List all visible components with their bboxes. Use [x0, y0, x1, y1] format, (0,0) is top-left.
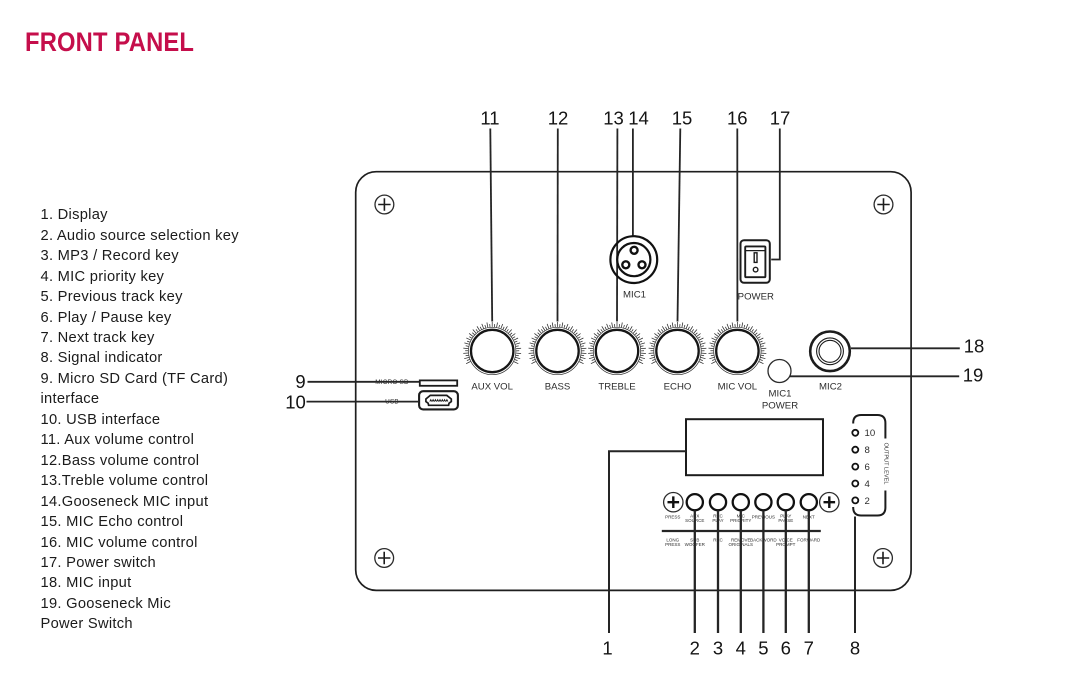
svg-text:13: 13 [603, 108, 624, 129]
svg-text:REC: REC [713, 537, 723, 542]
knob AUX VOL [463, 322, 521, 375]
svg-text:1: 1 [602, 638, 612, 659]
svg-text:SOURCE: SOURCE [685, 518, 704, 523]
svg-text:PLAY: PLAY [712, 518, 723, 523]
button PREVIOUS [755, 494, 771, 510]
svg-text:17: 17 [770, 108, 791, 129]
MIC1 XLR connector [610, 236, 657, 283]
svg-text:7: 7 [804, 638, 814, 659]
svg-text:6: 6 [865, 462, 870, 473]
leader line 5 from button PREVIOUS [762, 510, 764, 633]
svg-text:BACKWORD: BACKWORD [750, 537, 777, 542]
button MIC PRIORITY [733, 494, 749, 510]
svg-text:3: 3 [713, 638, 723, 659]
svg-text:WOOFER: WOOFER [685, 542, 706, 547]
leader line 13 to TREBLE knob [616, 129, 618, 322]
screw left of button row (PRESS) [664, 493, 683, 512]
panel outline [356, 172, 911, 591]
svg-text:11: 11 [480, 108, 499, 129]
divider line between press and long-press labels [662, 530, 821, 532]
leader line 8 from output level [854, 517, 856, 634]
svg-text:18: 18 [964, 336, 985, 357]
leader line 16 to MIC VOL knob [736, 129, 738, 322]
knob BASS [529, 322, 587, 375]
svg-text:BASS: BASS [545, 382, 571, 393]
svg-text:5: 5 [758, 638, 768, 659]
legend list [41, 205, 239, 635]
svg-text:FORWARD: FORWARD [797, 537, 821, 542]
svg-text:OUTPUT LEVEL: OUTPUT LEVEL [883, 443, 889, 485]
button NEXT [801, 494, 817, 510]
svg-text:TREBLE: TREBLE [598, 382, 635, 393]
svg-text:6: 6 [781, 638, 791, 659]
corner screw [375, 195, 394, 214]
leader line 2 from button AUX SOURCE [694, 510, 696, 633]
svg-text:2: 2 [690, 638, 700, 659]
svg-text:14: 14 [628, 108, 649, 129]
svg-text:10: 10 [865, 428, 876, 439]
output level LED 10 [852, 430, 858, 436]
svg-text:PRIORITY: PRIORITY [730, 518, 751, 523]
button AUX SOURCE [687, 494, 703, 510]
svg-text:12: 12 [548, 108, 569, 129]
svg-text:MIC1: MIC1 [623, 290, 646, 301]
svg-text:POWER: POWER [762, 401, 798, 412]
svg-text:AUX VOL: AUX VOL [471, 382, 513, 393]
svg-text:MIC2: MIC2 [819, 382, 842, 393]
output level LED 4 [852, 481, 858, 487]
svg-text:10: 10 [285, 392, 306, 413]
leader line 15 to ECHO knob [678, 129, 681, 322]
leader line 17 to power switch [771, 129, 780, 260]
svg-text:19: 19 [963, 365, 984, 386]
svg-text:POWER: POWER [738, 292, 774, 303]
svg-text:4: 4 [865, 479, 871, 490]
leader line 1 from display [609, 451, 686, 633]
leader line 18 from MIC2 [851, 347, 960, 349]
output level LED 6 [852, 464, 858, 470]
svg-text:MIC1: MIC1 [769, 389, 792, 400]
svg-text:MICRO SD: MICRO SD [375, 379, 409, 386]
svg-text:ECHO: ECHO [664, 382, 692, 393]
leader line 12 to BASS knob [557, 129, 559, 322]
button PLAY PAUSE [778, 494, 794, 510]
USB plug profile [426, 395, 451, 405]
leader line 4 from button MIC PRIORITY [740, 510, 742, 633]
MIC1 POWER switch circle [768, 360, 791, 383]
output level bracket [853, 415, 885, 516]
leader line 3 from button REC PLAY [717, 510, 719, 633]
USB teeth [430, 400, 448, 402]
knob ECHO [649, 322, 707, 375]
svg-text:16: 16 [727, 108, 748, 129]
MIC2 jack [810, 332, 850, 372]
knob MIC VOL [709, 322, 767, 375]
leader line 6 from button PLAY PAUSE [785, 510, 787, 633]
button REC PLAY [710, 494, 726, 510]
svg-text:2: 2 [865, 496, 870, 507]
corner screw [375, 549, 394, 568]
display [686, 419, 823, 475]
svg-text:9: 9 [295, 371, 305, 392]
leader line 9 to SD slot [308, 381, 420, 383]
svg-text:4: 4 [736, 638, 746, 659]
USB connector [419, 391, 458, 409]
svg-text:PROMPT: PROMPT [776, 542, 796, 547]
corner screw [874, 195, 893, 214]
svg-text:NEXT: NEXT [803, 515, 815, 520]
knob TREBLE [588, 322, 646, 375]
output level LED 8 [852, 447, 858, 453]
svg-text:PREVIOUS: PREVIOUS [752, 515, 775, 520]
leader line 10 to USB [307, 401, 420, 403]
svg-text:USB: USB [385, 399, 399, 406]
screw right of button row [820, 493, 839, 512]
svg-text:PRESS: PRESS [665, 515, 680, 520]
svg-text:15: 15 [672, 108, 693, 129]
svg-text:8: 8 [850, 638, 860, 659]
corner screw [874, 549, 893, 568]
svg-text:ORIGINALS: ORIGINALS [729, 542, 754, 547]
micro SD card slot [420, 380, 457, 385]
power switch [741, 240, 770, 283]
svg-text:8: 8 [865, 445, 870, 456]
svg-text:PAUSE: PAUSE [778, 518, 793, 523]
svg-text:PRESS: PRESS [665, 542, 680, 547]
leader line 19 from MIC1 POWER [790, 375, 959, 377]
svg-text:MIC VOL: MIC VOL [718, 382, 758, 393]
leader line 14 to MIC1 connector [632, 129, 634, 237]
leader line 11 to AUX VOL knob [490, 129, 492, 322]
leader line 7 from button NEXT [808, 510, 810, 633]
output level LED 2 [852, 497, 858, 503]
title FRONT PANEL [25, 29, 194, 56]
